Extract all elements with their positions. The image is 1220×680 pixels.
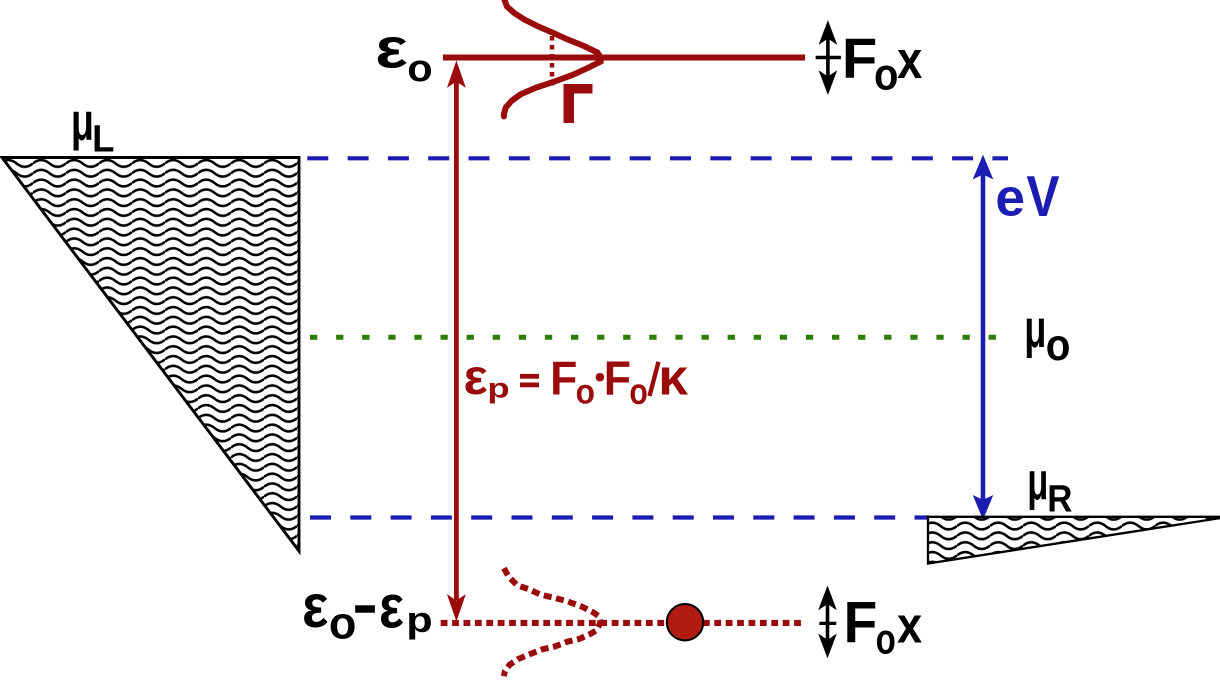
svg-text:ε: ε (375, 17, 407, 80)
black double arrow F_0 x (top) (816, 22, 841, 94)
svg-text:o: o (876, 617, 896, 664)
svg-text:μ: μ (71, 91, 94, 151)
epsilon_0 resonance level line (443, 55, 805, 61)
svg-text:V: V (1026, 164, 1059, 228)
svg-text:e: e (995, 169, 1025, 228)
svg-text:μ: μ (1024, 299, 1046, 359)
svg-text:ε: ε (464, 348, 488, 405)
svg-text:F: F (842, 28, 877, 91)
top blue dashed line at mu_L level (307, 156, 1008, 160)
right electrode filled-states triangle (mu_R) (928, 517, 1220, 564)
label Gamma (564, 84, 593, 123)
svg-text:μ: μ (1027, 453, 1048, 511)
svg-text:o: o (329, 597, 357, 648)
svg-text:ε: ε (379, 573, 404, 642)
bottom blue dashed line at mu_R level (310, 515, 929, 519)
svg-text:F: F (844, 590, 878, 655)
svg-text:o: o (576, 373, 595, 412)
svg-text:o: o (407, 47, 432, 89)
blue double-headed arrow eV (974, 156, 993, 519)
svg-text:p: p (487, 373, 509, 404)
svg-text:o: o (1046, 320, 1071, 369)
left electrode filled-states triangle (mu_L) (2, 158, 299, 552)
dashed lorentzian (polaron shifted resonance) (504, 568, 601, 676)
svg-text:o: o (874, 50, 898, 99)
green dotted line at mu_0 level (310, 335, 1006, 340)
svg-text:p: p (406, 600, 432, 640)
svg-text:x: x (897, 597, 922, 654)
dark red double arrow epsilon_p (448, 62, 465, 620)
svg-text:F: F (604, 351, 631, 405)
svg-text:o: o (629, 371, 647, 413)
lorentzian broadened resonance curve (504, 0, 601, 117)
svg-text:F: F (550, 351, 577, 405)
black double arrow F_0 x (bottom) (819, 587, 836, 657)
svg-text:κ: κ (658, 349, 689, 407)
svg-text:R: R (1047, 477, 1072, 520)
svg-text:ε: ε (302, 572, 328, 640)
svg-text:L: L (92, 117, 114, 160)
occupied polaron level (red circle) (667, 604, 703, 640)
svg-text:x: x (897, 32, 922, 90)
dotted level line epsilon_0 minus epsilon_p (441, 620, 805, 626)
dotted half-width (Gamma) marker (550, 36, 555, 90)
